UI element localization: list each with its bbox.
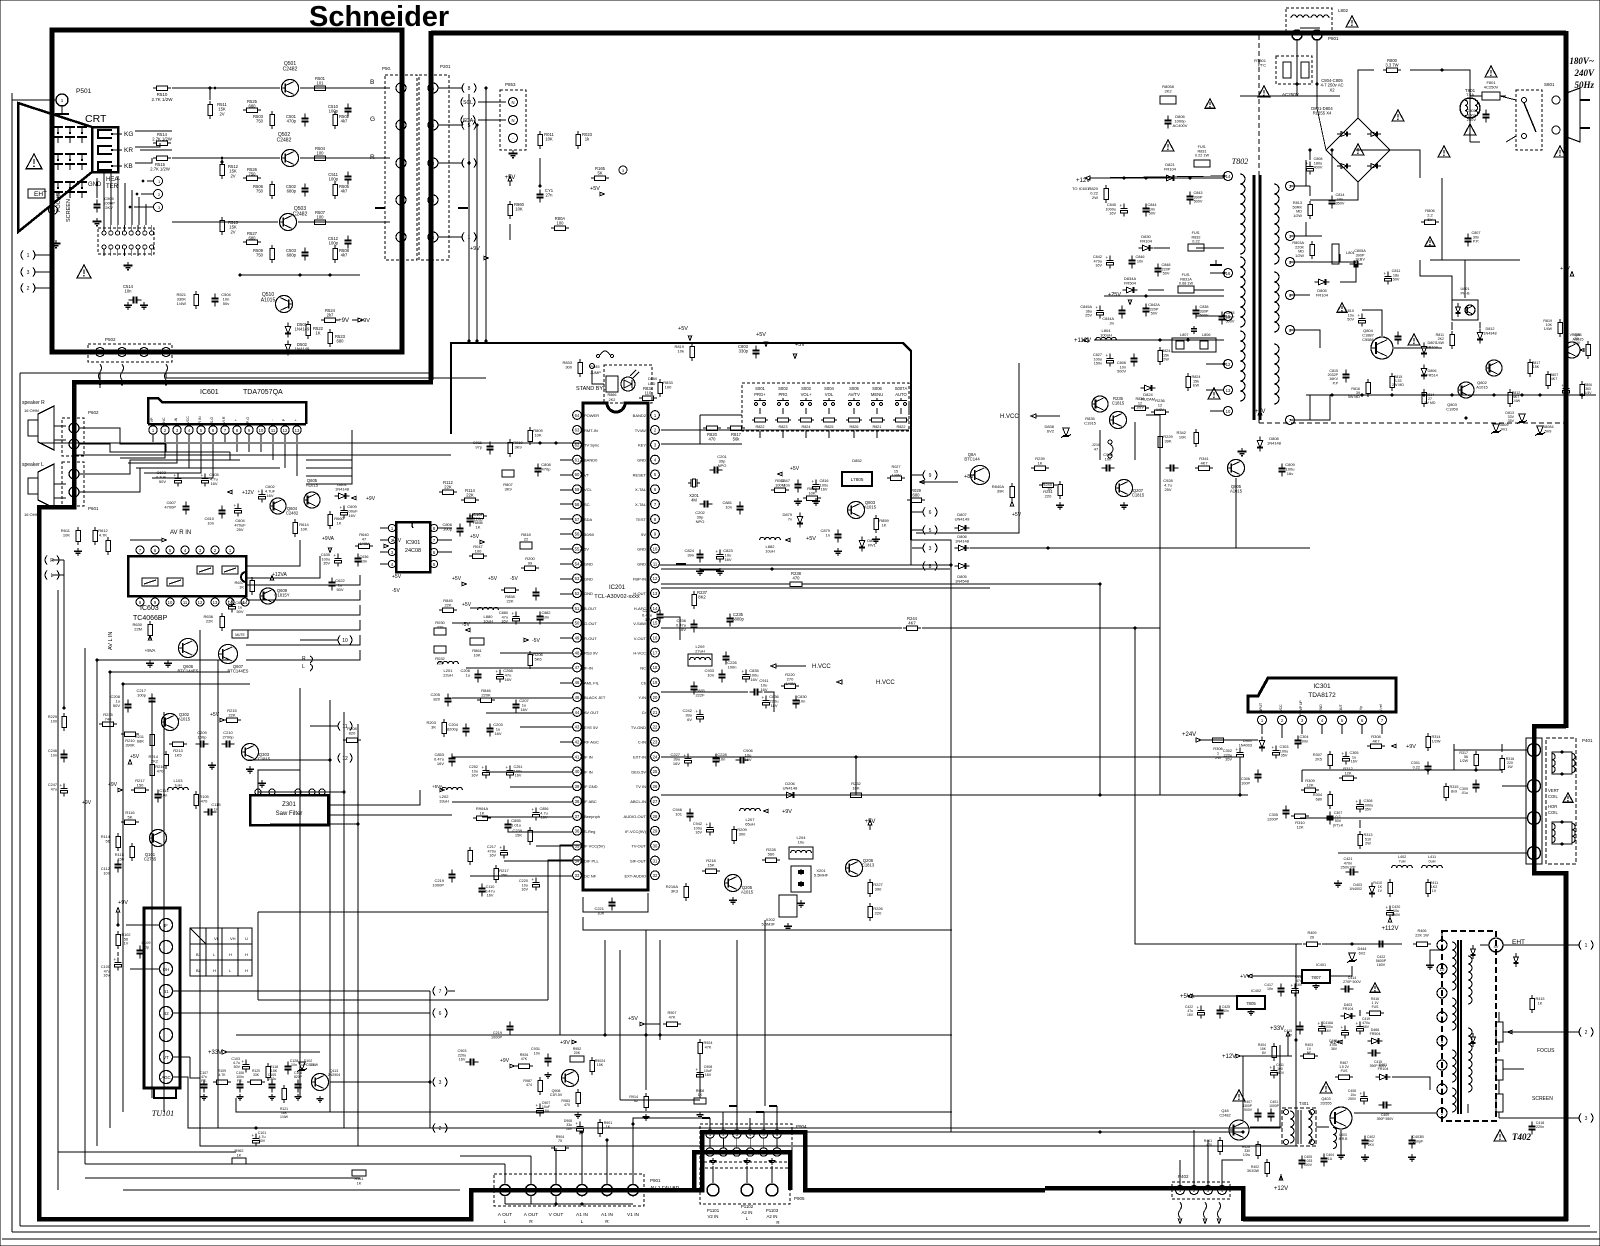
resistor R027 15 1/4W (887, 465, 905, 480)
svg-text:65uH: 65uH (745, 822, 755, 827)
label Schneider logo (309, 1, 449, 33)
svg-text:100P: 100P (1241, 781, 1250, 785)
svg-text:1/4V: 1/4V (1573, 341, 1581, 345)
resistor R820 470 (703, 426, 721, 442)
resistor R411 1K2 1W (1426, 879, 1438, 897)
wire signal board outline right (911, 540, 951, 565)
svg-text:BAND0: BAND0 (584, 458, 598, 463)
label 3 circ (619, 166, 627, 174)
resistor R309 12K (1301, 778, 1319, 792)
resistor R508 4k7 (333, 245, 350, 263)
resistor R503 750 (253, 111, 274, 129)
resistor R165 5K (591, 166, 609, 180)
svg-text:180V~: 180V~ (1569, 56, 1594, 66)
svg-text:59: 59 (575, 487, 580, 492)
svg-text:10n: 10n (125, 289, 133, 294)
svg-text:150: 150 (137, 783, 144, 788)
svg-text:13: 13 (653, 591, 658, 596)
transistor Q803 A1015 (848, 500, 877, 519)
svg-text:8x9: 8x9 (1451, 789, 1457, 793)
svg-text:1N4148: 1N4148 (1267, 441, 1282, 446)
svg-text:390P 550V: 390P 550V (1377, 1117, 1394, 1121)
svg-text:+: + (1096, 305, 1099, 310)
transistor Q206 C1815 (846, 858, 875, 877)
svg-text:+: + (340, 505, 343, 510)
svg-text:4k7: 4k7 (341, 189, 348, 194)
resistor R811 22K (1436, 331, 1455, 349)
supply +9V snd2 (865, 819, 876, 830)
svg-text:50V: 50V (1149, 212, 1156, 216)
svg-text:IC301: IC301 (1313, 683, 1331, 690)
capacitor C946 101 (672, 807, 693, 822)
supply +9V if (108, 782, 123, 792)
capacitor C816 100u 16V (812, 479, 829, 493)
svg-text:-: - (512, 136, 514, 141)
svg-text:3: 3 (199, 548, 202, 553)
svg-text:+5V: +5V (488, 576, 498, 582)
svg-text:DEG.5V: DEG.5V (631, 769, 646, 774)
svg-text:2: 2 (654, 428, 657, 433)
wire long y1000 (258, 999, 548, 1001)
label +9VA (322, 536, 335, 553)
capacitor C303 100u 35V (1272, 745, 1289, 759)
svg-text:50Hz: 50Hz (1574, 80, 1594, 90)
CRT electrodes (53, 127, 87, 198)
wire focus screen out (1499, 1030, 1580, 1118)
svg-text:820P: 820P (294, 1075, 303, 1079)
resistor R202b (468, 847, 473, 865)
capacitor C236 0.47u 16V (676, 618, 698, 633)
svg-text:6V2: 6V2 (1359, 951, 1366, 955)
svg-text:VI.R: VI.R (222, 416, 226, 423)
capacitor C806b 1000p AC400V (1165, 114, 1188, 129)
warning triangle sec (1208, 388, 1220, 399)
capacitor C418 47u 16V (1291, 975, 1304, 997)
svg-text:P.P.: P.P. (1473, 240, 1479, 244)
coil L209 27uH (688, 644, 712, 666)
svg-text:10n: 10n (534, 1051, 540, 1055)
fuse FUS R831 0.22 1W (1194, 145, 1210, 167)
fuse FUS R832 0.22 1W (1188, 231, 1204, 251)
svg-text:9: 9 (1441, 991, 1444, 996)
svg-text:Z301: Z301 (282, 802, 296, 808)
resistor R509 750 (253, 245, 274, 263)
svg-text:22K: 22K (444, 603, 451, 608)
wire crt B row (172, 87, 390, 90)
capacitor C911 10u 16V (750, 678, 770, 696)
transformer T802 left pins (1224, 172, 1233, 416)
supply +9V snd (764, 809, 793, 815)
svg-text:270P 500V: 270P 500V (1343, 980, 1361, 984)
svg-text:AV L IN: AV L IN (108, 632, 114, 650)
svg-text:44: 44 (575, 710, 580, 715)
wire outer frame bottom (12, 1231, 1597, 1233)
resistor R824b 15k 2W v (1186, 373, 1201, 391)
svg-text:150v: 150v (1094, 362, 1102, 366)
svg-text:L806: L806 (1202, 333, 1210, 337)
svg-text:+: + (334, 553, 337, 558)
ground q303 (208, 762, 254, 773)
svg-text:R: R (605, 1219, 609, 1225)
svg-text:750: 750 (256, 253, 264, 258)
capacitor C104 820P (294, 1071, 303, 1093)
svg-text:TEST: TEST (636, 517, 647, 522)
transistor Q605 A1015 audio (304, 478, 320, 508)
svg-text:+5V: +5V (210, 712, 220, 718)
transistor Q501 C2482 (282, 61, 299, 97)
svg-text:390: 390 (875, 887, 882, 892)
resistor R031 100M (771, 478, 789, 492)
svg-text:16V: 16V (487, 894, 494, 898)
svg-text:PRG: PRG (778, 392, 787, 397)
wire z301 links (328, 790, 452, 815)
svg-text:EYE 5V: EYE 5V (584, 725, 598, 730)
connector P501 (40, 88, 92, 114)
label AV L IN (108, 632, 114, 650)
capacitor C202 39p NPO (695, 501, 712, 525)
wire audio board top border (72, 380, 433, 385)
capacitor C823 10u 16V (716, 548, 734, 563)
svg-text:VOL: VOL (825, 392, 834, 397)
wire p904 stubs top (702, 1106, 777, 1130)
svg-text:SIF-OUT: SIF-OUT (630, 859, 647, 864)
svg-text:41: 41 (575, 754, 580, 759)
svg-text:22M: 22M (134, 627, 142, 632)
svg-text:P502: P502 (105, 337, 116, 342)
transistor Q85 A1015 err (1564, 333, 1583, 358)
capacitor C838 330P 500V (1193, 305, 1209, 319)
svg-text:NPO: NPO (696, 519, 705, 524)
wire av switch mesh (246, 575, 360, 660)
svg-text:FR104: FR104 (1164, 167, 1177, 172)
resistor R914 62 (629, 1093, 648, 1111)
transistor Q203 A1015 (725, 875, 754, 895)
label GND HEATER (88, 177, 120, 190)
svg-text:16V: 16V (821, 488, 828, 492)
capacitor C246 10n (48, 749, 68, 763)
diode D466 FR504 (1368, 1028, 1383, 1044)
svg-text:H.VCC: H.VCC (812, 664, 831, 670)
svg-text:680p: 680p (287, 189, 297, 194)
svg-text:AV-1 FAV BD: AV-1 FAV BD (650, 1186, 680, 1192)
wire fb vv line (1330, 966, 1352, 976)
svg-text:1K: 1K (476, 525, 481, 530)
capacitor C252 10u 16V (469, 765, 490, 779)
diode D444 6V2 (1347, 947, 1366, 963)
svg-text:DIF PLL: DIF PLL (584, 859, 599, 864)
wire left border chevrons (45, 556, 59, 580)
wire hdrive chain (1100, 420, 1160, 460)
svg-text:5: 5 (200, 428, 203, 433)
wire y-in loop (661, 692, 774, 712)
capacitor C409 390P 550V (1377, 1102, 1394, 1121)
svg-text:GND: GND (584, 576, 593, 581)
ground c421 (1334, 880, 1342, 887)
svg-text:FR504: FR504 (1370, 1032, 1381, 1036)
wire v-out long (661, 617, 680, 640)
svg-text:50/60: 50/60 (584, 532, 595, 537)
wire sub-board outline A (200, 630, 1296, 1146)
svg-text:EW: EW (1193, 384, 1200, 388)
svg-text:+: + (1236, 747, 1239, 752)
svg-text:16V: 16V (724, 557, 731, 562)
wire inner frame top (20, 372, 433, 374)
svg-text:3: 3 (158, 205, 161, 210)
svg-text:2V: 2V (230, 229, 235, 234)
warning triangle L802 (1346, 16, 1358, 27)
connector P602 (62, 410, 99, 456)
svg-text:2W: 2W (1092, 195, 1098, 200)
resistor R504 100 (311, 146, 329, 160)
capacitor C408 10u 250V (1348, 1089, 1368, 1105)
svg-text:470p: 470p (287, 119, 297, 124)
svg-text:C2482: C2482 (277, 138, 292, 144)
transistor Q403 2D555 (1320, 1082, 1352, 1129)
svg-text:8: 8 (236, 428, 239, 433)
warning triangle F801 (1485, 66, 1497, 77)
wire opto link (1430, 260, 1520, 330)
capacitor C417 10n (1264, 983, 1284, 997)
resistor R812 4K7 1/4W (1508, 389, 1521, 407)
capacitor C219 1000P (432, 870, 455, 888)
svg-text:15K: 15K (707, 863, 714, 868)
svg-text:7: 7 (139, 548, 142, 553)
svg-text:+5V: +5V (756, 332, 766, 338)
svg-text:R: R (302, 656, 306, 662)
svg-text:1N4003: 1N4003 (1239, 743, 1252, 747)
wire t802 left taps (1196, 273, 1224, 411)
svg-text:+: + (201, 473, 204, 478)
transformer T802 right pins (1286, 182, 1295, 425)
resistor R524 2k7 (321, 308, 339, 322)
capacitor C839 330P 500V (1219, 311, 1235, 325)
svg-text:100uH: 100uH (1100, 333, 1112, 338)
ground Q606 (146, 660, 172, 667)
resistor R510 (151, 86, 173, 102)
capacitor C610 10n (204, 506, 225, 526)
svg-text:+5V: +5V (392, 574, 402, 580)
svg-text:IF ABC: IF ABC (584, 799, 597, 804)
svg-text:C2482: C2482 (293, 212, 308, 218)
resistor R860 10K (508, 201, 525, 219)
svg-text:+: + (1358, 313, 1361, 318)
resistor R011 10K (538, 131, 555, 149)
svg-text:50V: 50V (113, 703, 120, 708)
svg-text:Beepnph: Beepnph (584, 814, 600, 819)
resistor R819 10k (674, 343, 694, 361)
resistor R636 22K (203, 613, 224, 631)
resistor R401 470 (1204, 1137, 1222, 1155)
supply +5V kb3 (793, 342, 805, 359)
svg-text:18: 18 (653, 665, 658, 670)
connector chevron SCL (461, 98, 506, 107)
capacitor C3O5b 1200P (1267, 806, 1289, 822)
resistor R521 330K 1/4W (176, 291, 198, 309)
capacitor C268 47u 16V (496, 668, 514, 683)
resistor R840A 39K (992, 483, 1015, 501)
capacitor C501 470p (286, 114, 309, 127)
wire t402 to p402 (1222, 1056, 1243, 1186)
svg-text:0.82u: 0.82u (268, 1077, 277, 1081)
svg-text:1K: 1K (1038, 461, 1043, 466)
svg-text:BAND2: BAND2 (633, 413, 647, 418)
svg-text:INPUT: INPUT (1259, 703, 1263, 713)
svg-text:+: + (706, 822, 709, 827)
wire ic601 pin wires (237, 444, 297, 476)
svg-text:VP: VP (150, 417, 154, 422)
svg-text:GND: GND (584, 562, 593, 567)
svg-text:L: L (51, 573, 54, 579)
capacitor C109 30p (137, 941, 151, 959)
resistor R816 39 5W (1348, 379, 1370, 399)
diode D809 9V1 (1491, 423, 1508, 434)
capacitor C502 680p (286, 184, 309, 197)
capacitor C401 1000P (1268, 1100, 1280, 1122)
svg-text:56k: 56k (733, 437, 741, 442)
resistor R105 470 (194, 791, 210, 809)
svg-text:+33V: +33V (1270, 1026, 1284, 1032)
capacitor C636 10n (355, 554, 369, 567)
op-amp IC301 pins (1258, 700, 1387, 734)
svg-text:IC402: IC402 (1251, 989, 1261, 993)
wire q113 out (330, 1078, 447, 1087)
svg-text:250V: 250V (1467, 117, 1477, 122)
svg-text:15: 15 (653, 621, 658, 626)
capacitor C942 100u 16V (693, 822, 714, 836)
svg-text:0.22 1W: 0.22 1W (1195, 154, 1210, 158)
wire key col stubs (760, 431, 877, 438)
capacitor C848 220P 50V (1155, 263, 1171, 277)
svg-text:330p: 330p (739, 349, 749, 354)
connector P853 (500, 82, 526, 150)
svg-text:75: 75 (558, 1139, 562, 1143)
svg-text:22K: 22K (506, 599, 513, 604)
svg-text:TU101: TU101 (152, 1109, 174, 1118)
svg-text:V1 IN: V1 IN (627, 1212, 640, 1218)
svg-text:16V: 16V (489, 854, 496, 858)
svg-text:C1815: C1815 (1112, 401, 1125, 406)
svg-text:10n: 10n (51, 753, 57, 757)
label HOR COIL (1548, 804, 1558, 815)
svg-text:16: 16 (1226, 271, 1231, 276)
svg-text:R822: R822 (755, 425, 764, 429)
capacitor C845A 36u 25V (1080, 305, 1103, 319)
svg-text:+: + (1342, 751, 1345, 756)
capacitor C208 1u 50V (110, 694, 131, 713)
connector P502 arrows (98, 364, 168, 386)
label FOCUS (1537, 1048, 1555, 1054)
resistor R908 1K (694, 1089, 706, 1104)
svg-text:P801: P801 (1328, 36, 1339, 41)
svg-text:FR104: FR104 (1426, 345, 1437, 349)
svg-text:STAND BYL: STAND BYL (576, 386, 606, 392)
svg-text:1KBV: 1KBV (1355, 258, 1365, 262)
op-amp IC901 24C08 (396, 522, 430, 572)
resistor R806 2.2 5V (1421, 208, 1439, 224)
resistor R317 56 1/2W (1459, 751, 1478, 769)
wire ic bottom loop (583, 893, 648, 912)
svg-text:+: + (1106, 255, 1109, 260)
svg-text:5: 5 (169, 548, 172, 553)
capacitor C881 10n (722, 500, 743, 515)
capacitor C410 10n fb (1284, 1022, 1304, 1037)
svg-text:+: + (1291, 983, 1294, 988)
diode D502 1N4149 (285, 341, 310, 356)
svg-text:3: 3 (622, 168, 625, 173)
svg-text:1: 1 (654, 413, 657, 418)
resistor R833 100 (658, 379, 674, 397)
svg-text:100p: 100p (329, 241, 339, 246)
capacitor C931 10n (531, 1047, 552, 1067)
svg-text:250V PP: 250V PP (1341, 866, 1356, 870)
coil L804 100uH (1096, 328, 1117, 340)
svg-text:TDA7057QA: TDA7057QA (243, 389, 283, 396)
svg-text:+5V: +5V (452, 576, 462, 582)
svg-text:7805: 7805 (1246, 1001, 1256, 1006)
wire tuner B2 (173, 1009, 447, 1018)
diode D301 1N4003 (1239, 737, 1265, 752)
capacitor C505 1000P 2KV (94, 196, 116, 213)
svg-text:50V: 50V (259, 1139, 266, 1143)
transformer T402 primary pins (1437, 940, 1447, 1118)
transistor R235b C1815 (1110, 396, 1127, 429)
svg-text:39: 39 (575, 784, 580, 789)
op-amp IC603 TC4066BP (128, 556, 246, 622)
resistor R612 4.7K (93, 527, 109, 545)
svg-text:1/2w: 1/2w (1243, 1153, 1251, 1157)
capacitor C813 100u (1562, 383, 1570, 397)
svg-text:3K9: 3K9 (514, 445, 522, 450)
crystal X201 4M (688, 479, 700, 503)
svg-text:5: 5 (1441, 1015, 1444, 1020)
diode D206 UN4148 (783, 781, 799, 798)
wire long y443 (39, 442, 583, 444)
svg-text:MUTE: MUTE (235, 633, 245, 637)
svg-text:1/4W: 1/4W (280, 1115, 289, 1119)
svg-text:2D555: 2D555 (1320, 1101, 1331, 1105)
svg-text:10: 10 (342, 638, 348, 644)
svg-text:9: 9 (654, 532, 657, 537)
svg-text:2.7K 1/2W: 2.7K 1/2W (150, 167, 170, 172)
svg-text:4: 4 (391, 562, 394, 567)
svg-text:3: 3 (1301, 718, 1304, 723)
connector P905 (700, 1168, 805, 1204)
svg-text:4.7K: 4.7K (219, 1073, 227, 1077)
svg-text:VH: VH (230, 936, 236, 941)
wire left bus h-taps (246, 760, 358, 824)
zener D102 uPC574 (297, 1059, 314, 1072)
svg-text:SC.: SC. (584, 502, 591, 507)
svg-text:GND: GND (584, 591, 593, 596)
resistor R809b 2K2 (1160, 84, 1176, 104)
wire 12v rail (1094, 177, 1224, 179)
warning triangle r416 (1370, 983, 1380, 992)
svg-text:8K2: 8K2 (698, 595, 706, 600)
wire left bus v2 (343, 712, 345, 1128)
resistor R010 3K9 (508, 439, 524, 457)
wire t802 sec components (1148, 248, 1224, 290)
wire chevron links fb (1530, 945, 1580, 1118)
label VERT COIL (1548, 788, 1573, 802)
svg-text:10: 10 (1440, 967, 1445, 972)
resistor R218 15K (702, 858, 720, 873)
svg-text:16: 16 (653, 636, 658, 641)
svg-text:Y-IN: Y-IN (638, 695, 646, 700)
svg-text:2k7: 2k7 (327, 313, 334, 318)
tuner TU101 pins (160, 919, 173, 1084)
svg-text:+12V: +12V (242, 490, 254, 496)
svg-text:R821: R821 (872, 425, 881, 429)
